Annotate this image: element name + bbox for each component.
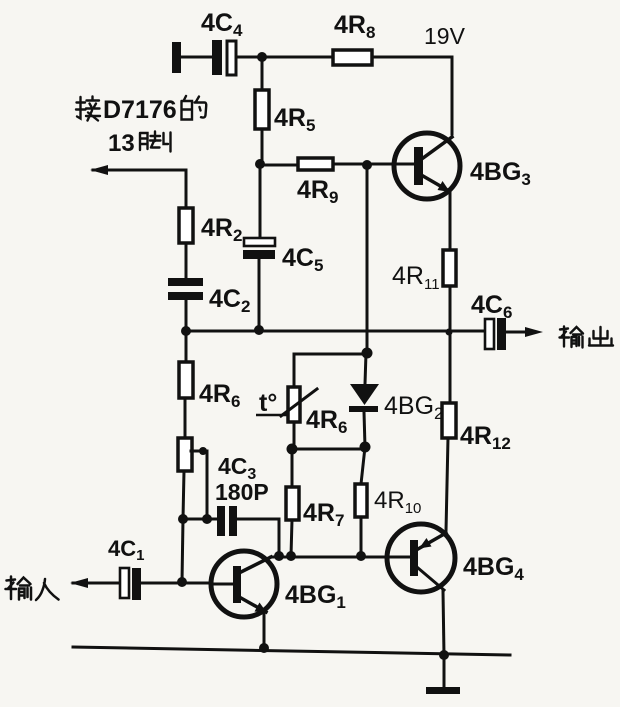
resistor R5 [255,90,269,129]
node [286,551,296,561]
node [254,325,264,335]
wire [261,129,264,164]
wire [141,582,211,585]
wire output line [186,330,485,333]
wire [236,56,333,59]
resistor R12 [442,403,456,438]
node top junction [257,52,267,62]
node [446,329,453,336]
terminal bar top-left [172,42,181,73]
wire [258,259,261,330]
svg-text:19V: 19V [424,23,466,49]
svg-text:180P: 180P [215,479,269,505]
resistor R11 [443,250,456,286]
wire BG3 emitter down [449,192,452,250]
node [362,348,373,359]
wire [183,518,217,521]
wire [446,438,448,531]
node [439,650,449,660]
transistor BG1 [211,551,277,617]
wire [291,520,292,556]
output arrow [506,327,543,337]
node [362,160,372,170]
node [274,551,284,561]
transistor BG3 [394,133,460,199]
node [178,514,188,524]
node tap [199,447,207,455]
capacitor C1 [120,568,141,600]
wire bottom rail [73,647,510,655]
wire [360,517,363,556]
resistor R8 [333,50,372,65]
node [181,326,191,336]
text jie D7176 de (connect to pin 13 of D7176) [76,96,206,157]
wire [361,447,365,484]
wire [263,614,266,647]
wire tap [191,451,207,519]
capacitor C5 [243,238,275,259]
node [360,442,371,453]
resistor R2 [179,208,193,243]
text shuchu (output) [560,327,614,348]
transistor BG4 [387,524,455,592]
wire [443,591,444,655]
wire [181,56,212,59]
label t deg [256,389,287,417]
wire [185,300,188,362]
node [259,643,269,653]
diode BG2 [349,353,379,447]
node [202,514,212,524]
ground [426,655,460,694]
resistor R7 [286,487,299,520]
thermistor R6 [281,354,367,449]
node [255,159,265,169]
wire [259,164,262,237]
wire left rail lower [182,519,183,582]
text shuru (input) [6,577,59,601]
wire collector line [271,556,410,559]
input arrow [70,578,120,588]
wire [261,57,264,90]
wire [185,243,188,278]
wire [237,519,279,556]
capacitor C4 [212,40,236,75]
svg-text:13: 13 [108,130,135,157]
node [177,577,187,587]
resistor R10 [355,484,367,517]
wire [183,471,184,519]
capacitor C2 [168,278,203,300]
resistor R6 left [179,362,193,398]
wire arrow to D7176 [90,165,186,208]
resistor tapped [178,438,192,471]
wire [292,448,365,451]
wire 19V [372,57,452,134]
wire R9 left [260,164,298,167]
wire [333,163,414,166]
node [287,444,298,455]
svg-text:D7176: D7176 [103,96,177,124]
svg-text:t°: t° [259,389,277,417]
wire [184,398,187,438]
capacitor C3 [217,506,237,536]
wire [291,449,294,487]
wire [449,286,452,403]
node [356,551,366,561]
capacitor C6 [485,318,506,350]
wire diode column upper [366,165,369,353]
resistor R9 [298,158,333,170]
